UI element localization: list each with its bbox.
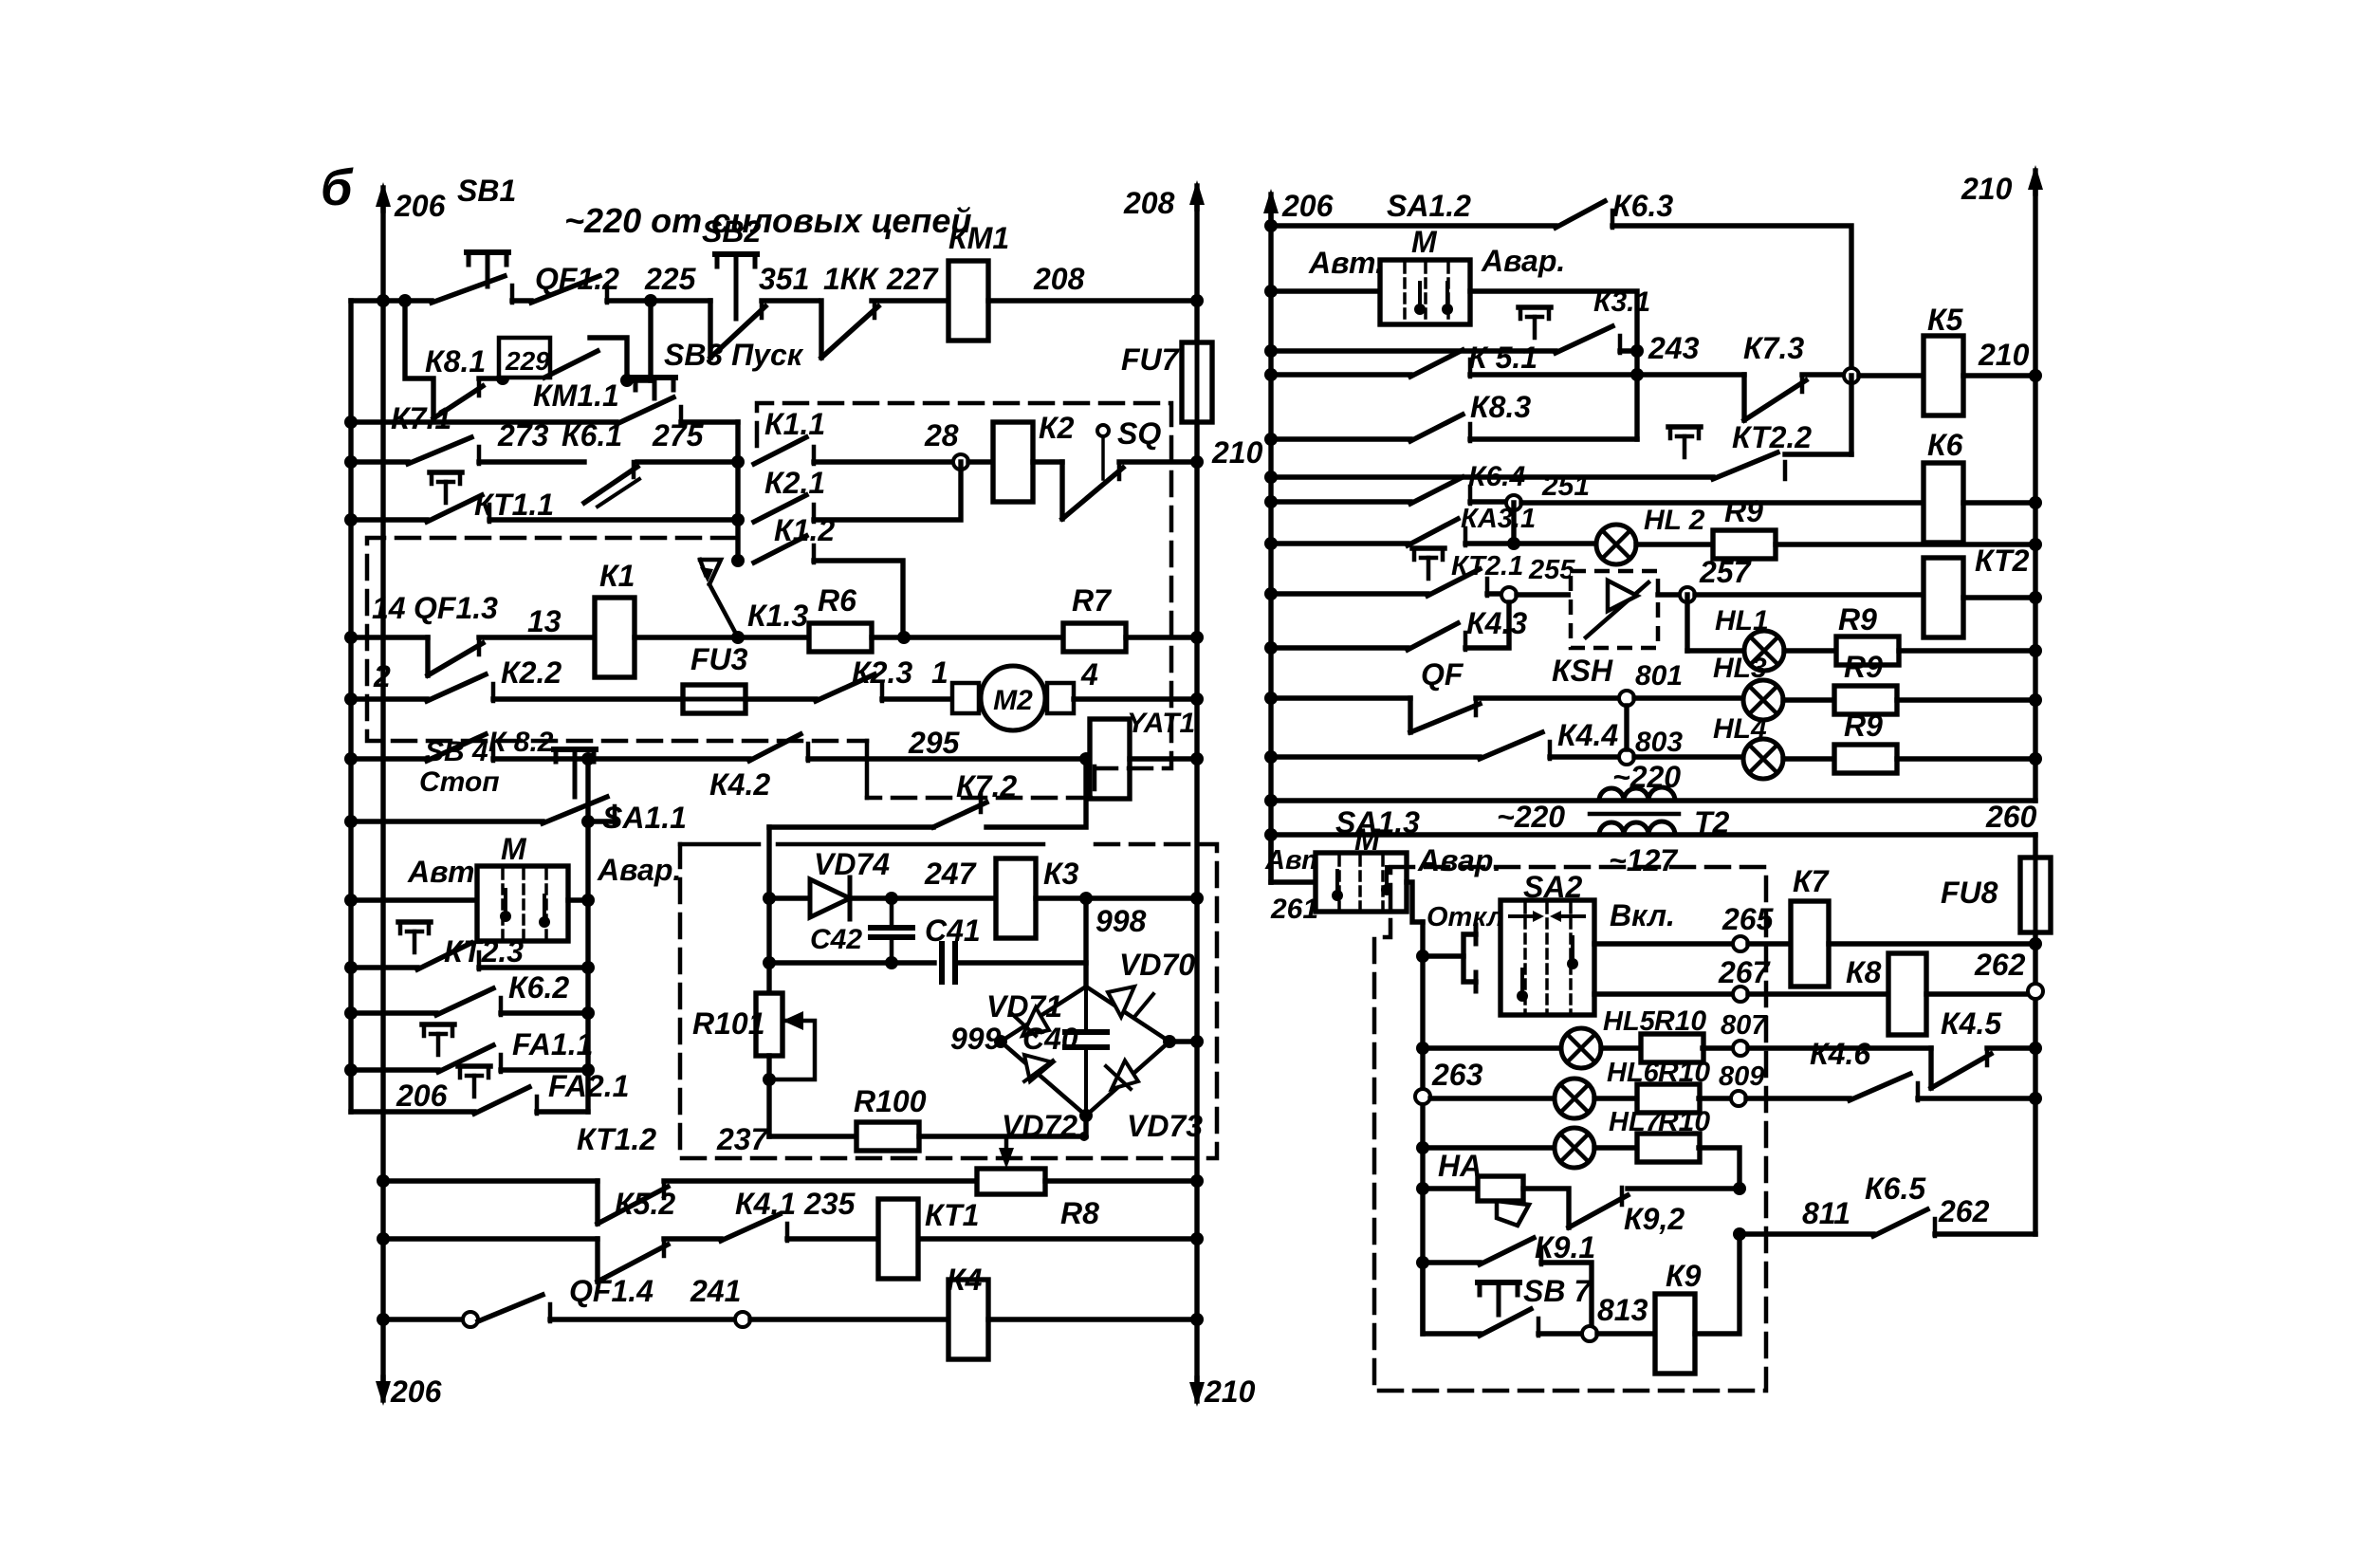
wire rungR9 c [1658, 592, 1680, 597]
svg-text:999: 999 [950, 1022, 1002, 1056]
svg-text:К4.6: К4.6 [1810, 1037, 1870, 1071]
svg-text:К5.2: К5.2 [615, 1187, 675, 1221]
wire rung1245 a [664, 1178, 977, 1183]
svg-text:VD71: VD71 [986, 989, 1062, 1024]
node dot 1500-1008 [1416, 950, 1429, 963]
wire rungR4 left [1271, 372, 1410, 377]
svg-text:С42: С42 [810, 924, 862, 955]
node dot 620-1020 [581, 961, 595, 974]
wire rung 811 b [1935, 1231, 2035, 1236]
coil K5 [1924, 336, 1963, 415]
wire rung1 c [762, 298, 818, 303]
svg-text:КТ2.3: КТ2.3 [444, 934, 524, 968]
svg-text:Авар.: Авар. [1417, 843, 1501, 877]
coil K7 [1791, 901, 1829, 987]
svg-text:К6.4: К6.4 [1468, 461, 1525, 492]
node dot R11 bus [2029, 693, 2042, 707]
contact 1KK [819, 301, 823, 358]
svg-text:811: 811 [1802, 1196, 1850, 1230]
wire rung1015 [769, 960, 934, 965]
wire rung487 a [479, 459, 584, 464]
svg-text:262: 262 [1938, 1194, 1990, 1228]
contact K4.4 [1480, 732, 1542, 759]
svg-text:К3: К3 [1043, 857, 1079, 891]
contact K5.1 [1410, 350, 1463, 377]
node dot 620-949 [581, 894, 595, 907]
wire HL1 rung [1687, 648, 1744, 653]
wire rung672 left [351, 635, 428, 639]
arrow down bus 206 [380, 1377, 385, 1400]
svg-text:227: 227 [886, 262, 940, 296]
node dot R7 bus [2029, 496, 2042, 509]
svg-text:К2.1: К2.1 [764, 466, 825, 500]
svg-text:206: 206 [390, 1374, 442, 1409]
wire HL1 b [1784, 648, 1836, 653]
node 225 [644, 294, 657, 307]
svg-text:1: 1 [931, 655, 948, 690]
svg-text:809: 809 [1719, 1061, 1764, 1092]
motor M2 [952, 683, 979, 713]
svg-text:К1: К1 [599, 559, 635, 593]
svg-text:КТ2.1: КТ2.1 [1451, 551, 1523, 581]
latch contact K1.3 [709, 584, 738, 637]
wire rung1172 right [537, 1109, 588, 1114]
resistor R10 c [1637, 1134, 1700, 1162]
svg-text:М: М [1411, 225, 1438, 259]
node dot 1061-1198 junction [1079, 1132, 1089, 1141]
wire rung HL6 e [1918, 1096, 2035, 1100]
svg-text:255: 255 [1528, 555, 1575, 585]
svg-text:R9: R9 [1844, 650, 1883, 684]
wire rung800 a [493, 756, 749, 761]
node dot 998 [1079, 892, 1093, 905]
node dot R2 [1264, 285, 1278, 298]
svg-text:257: 257 [1699, 555, 1753, 589]
wire 267 to K8 [1748, 991, 1888, 996]
svg-text:К9: К9 [1666, 1259, 1702, 1293]
node dot R4 [1264, 368, 1278, 381]
wire rung K9.1 b [1541, 1263, 1592, 1326]
circle node 807 [1733, 1041, 1748, 1056]
svg-text:КТ2.2: КТ2.2 [1732, 420, 1812, 454]
node dot bus rung1306 [377, 1232, 390, 1245]
contact K6.1 latched [584, 467, 637, 503]
dashed box D3 (rectifier module) [680, 844, 1217, 1158]
coil K4 [948, 1280, 988, 1359]
wire rung487 f [1119, 459, 1197, 464]
travel switch SQ [1059, 462, 1064, 519]
pushbutton SB1 [467, 249, 508, 255]
wire rung1 a [512, 298, 531, 303]
svg-text:801: 801 [1635, 660, 1683, 692]
svg-text:SA1.1: SA1.1 [602, 801, 687, 835]
capacitor C41 [939, 944, 945, 982]
capacitor C40 [1084, 987, 1088, 1030]
coil K8 [1888, 953, 1926, 1035]
contact K1.2 [754, 536, 806, 563]
wire rung672 d [1126, 635, 1197, 639]
svg-text:НА: НА [1438, 1149, 1482, 1183]
node dot R9 bus [2029, 591, 2042, 604]
svg-text:Вкл.: Вкл. [1610, 898, 1675, 932]
svg-text:208: 208 [1123, 186, 1175, 220]
wire vertical 1952 lower [1849, 376, 1853, 454]
wire rungR5 right [1470, 436, 1637, 441]
svg-text:HL3: HL3 [1713, 653, 1767, 684]
wiper arrow to R8 [1004, 1136, 1009, 1159]
svg-text:R101: R101 [692, 1006, 765, 1041]
node dot bus-1098 [1190, 1035, 1204, 1048]
svg-text:R7: R7 [1072, 583, 1113, 618]
node dot bus rung1391 [377, 1313, 390, 1326]
svg-text:КТ1.2: КТ1.2 [577, 1122, 656, 1156]
node dot rung800 right bus [1190, 752, 1204, 766]
resistor R10 a [1641, 1034, 1703, 1062]
lamp HL1 [1744, 631, 1784, 671]
circle node 263 [1415, 1089, 1430, 1104]
circle node 809 [1731, 1091, 1746, 1106]
wire rung737 left [351, 696, 427, 701]
contact K4.3 [1408, 623, 1458, 650]
bus 262 vertical segment [2033, 944, 2037, 1234]
wire rungR5 left [1271, 436, 1410, 441]
contact K8.3 [1410, 415, 1463, 441]
wire rung1068 left [351, 1010, 436, 1015]
svg-text:QF1.2: QF1.2 [535, 262, 619, 296]
svg-text:206: 206 [396, 1079, 448, 1113]
svg-text:К6: К6 [1927, 428, 1963, 462]
wire rungR9 e [1963, 595, 2035, 600]
solenoid YAT1 [1090, 719, 1130, 799]
node dot rung487 right bus [1190, 455, 1204, 469]
wire rungR12 left [1271, 754, 1480, 759]
bracket SA2 left [1423, 953, 1464, 958]
wire rungR3 left [1271, 348, 1556, 353]
node dot R9 [1264, 587, 1278, 600]
wire rungR7 left [1271, 499, 1410, 504]
wire rungR11 c [1783, 697, 1834, 702]
svg-text:243: 243 [1648, 331, 1700, 365]
wire rung SB7 a [1423, 1263, 1480, 1334]
node dot rail rung949 [344, 894, 358, 907]
selector SA2 block [1500, 900, 1594, 1015]
arrow up right-half 210 [2033, 171, 2037, 194]
contact K4.2 [749, 734, 801, 761]
contact QF1.2 [531, 276, 599, 303]
lamp HL4 [1743, 739, 1783, 779]
wire K7.2 rung [769, 824, 933, 829]
wire rung1020 right [479, 965, 588, 969]
svg-text:Авар.: Авар. [1481, 244, 1565, 278]
pushbutton SB3 [634, 375, 675, 380]
wire bus to SA1.3 [1268, 835, 1273, 882]
arrow up bus 208 [1194, 186, 1199, 209]
wire rung HL5 c [1703, 1045, 1733, 1050]
svg-text:М: М [501, 832, 527, 866]
wire rung HA a [1423, 1186, 1478, 1190]
contact K6.5 [1873, 1209, 1927, 1236]
resistor R9 c [1834, 686, 1897, 714]
wire rung SB7 b [1538, 1331, 1582, 1336]
svg-text:К1.3: К1.3 [747, 599, 808, 633]
svg-text:VD73: VD73 [1127, 1109, 1203, 1143]
svg-text:QF: QF [1421, 657, 1464, 692]
wire rungR9 a [1487, 591, 1501, 596]
svg-text:КА3.1: КА3.1 [1461, 504, 1536, 534]
svg-text:Авт.: Авт. [1308, 246, 1384, 280]
svg-text:295: 295 [908, 726, 961, 760]
wire rung1172 left [351, 1109, 474, 1114]
svg-text:К2.3: К2.3 [852, 655, 912, 690]
wire K7 out [1829, 941, 2035, 946]
svg-text:QF1.4: QF1.4 [569, 1274, 654, 1308]
svg-text:998: 998 [1095, 904, 1147, 938]
wire R100 rung [769, 1134, 856, 1138]
time contact KT2.3 [398, 919, 431, 925]
wire rung HL7 out [1699, 1148, 1740, 1189]
contact K6.2 [436, 988, 493, 1015]
bus 206 right-half vertical [1268, 213, 1273, 882]
wire rung1306 left [383, 1236, 598, 1241]
wire rung1 b [607, 298, 710, 303]
node dot rung1245 right bus [1190, 1174, 1204, 1188]
fuse FU7 [1182, 342, 1212, 422]
wire rungR2 left [1271, 288, 1380, 293]
circle node 262 [2028, 984, 2043, 999]
svg-text:237: 237 [716, 1122, 770, 1156]
wire rungR8 left [1271, 541, 1408, 545]
wire rungR9 b [1517, 592, 1582, 597]
wire rung1245 b [1045, 1178, 1197, 1183]
diode VD71 (bridge) [1001, 987, 1086, 1042]
resistor R7 [1063, 623, 1126, 652]
wire rung HL7 a [1423, 1145, 1555, 1150]
wire rung HL5 b [1601, 1045, 1642, 1050]
svg-text:225: 225 [644, 262, 697, 296]
wire K8 out [1926, 991, 2028, 996]
node dot rung1391 right bus [1190, 1313, 1204, 1326]
node dot rail rung1020 [344, 961, 358, 974]
node dot rail rung737 [344, 692, 358, 706]
svg-text:251: 251 [1541, 470, 1590, 502]
node dot 229-branch left [398, 294, 412, 307]
time contact KT1.1 [430, 470, 462, 475]
wire rung800 b [808, 756, 1090, 761]
svg-text:13: 13 [527, 604, 562, 638]
time contact KT1.2 [595, 1181, 599, 1224]
svg-text:М: М [1354, 822, 1381, 857]
node dot R8 bus [2029, 538, 2042, 551]
node dot 1500-1105 [1416, 1042, 1429, 1055]
circle node 801 [1619, 691, 1634, 706]
capacitor C42 [890, 898, 894, 923]
wire rungR12 b [1634, 754, 1743, 759]
svg-text:206: 206 [394, 189, 446, 223]
node dot 1726-395 [1630, 368, 1644, 381]
wire SA2 row A [1594, 941, 1733, 946]
coil K3 [996, 858, 1036, 938]
wire rung949 left [351, 897, 477, 902]
coil K9 [1655, 1294, 1695, 1374]
wire R100 right [919, 1134, 1084, 1138]
wire 265 to K7 [1748, 941, 1792, 946]
node dot 1500-1331 [1416, 1256, 1429, 1269]
bus 210 right-half vertical [2033, 190, 2037, 801]
wire K9.2 out [1628, 1186, 1740, 1190]
time contact K3.1 [1519, 304, 1551, 310]
wire rung800 c [1130, 756, 1197, 761]
node dot 620-1128 [581, 1063, 595, 1077]
node dot R10 [1264, 641, 1278, 655]
svg-text:SQ: SQ [1117, 416, 1161, 451]
wire HL1 c [1899, 648, 2035, 653]
wire C41 right [955, 960, 1086, 965]
wire rail 844 [1271, 798, 2035, 802]
wire rungR8 c [1776, 542, 2035, 546]
wire rungR2 right [1470, 291, 1637, 351]
circle node 251 [1506, 495, 1521, 510]
svg-text:К2: К2 [1039, 411, 1075, 445]
svg-text:SB2: SB2 [702, 214, 761, 249]
svg-text:R9: R9 [1838, 602, 1877, 636]
contact K8.1 [433, 386, 483, 418]
svg-text:К6.3: К6.3 [1612, 189, 1673, 223]
node dot rail rung672 [344, 631, 358, 644]
svg-text:К6.2: К6.2 [508, 970, 569, 1005]
svg-text:КSН: КSН [1552, 654, 1613, 688]
wire rungR1 left [1271, 223, 1556, 228]
bus 208/210 vertical [1194, 204, 1199, 1382]
dashed box D1 (K1/K2 group) top [757, 403, 1171, 768]
contact K2.2 [427, 674, 486, 701]
breaker QF [1408, 698, 1412, 732]
bus 206 left vertical [380, 207, 385, 1380]
mode switch SA1.1 block [477, 866, 568, 941]
svg-text:К8.3: К8.3 [1470, 390, 1531, 424]
svg-text:HL4: HL4 [1713, 713, 1767, 745]
wire rungR11 d [1897, 697, 2035, 702]
wire rung487 d [968, 459, 995, 464]
node dot rail rung1128 [344, 1063, 358, 1077]
node dot rail rung445 [344, 415, 358, 429]
wire SA1.3 out [1407, 882, 1423, 922]
wire 229-loop mid [479, 376, 501, 380]
node dot 811-947 [763, 892, 776, 905]
wire rung HL6 b [1594, 1096, 1638, 1100]
svg-text:2: 2 [373, 659, 391, 693]
svg-text:275: 275 [652, 418, 705, 452]
wire vertical 620 [585, 759, 590, 1112]
wire 257 drop [1685, 595, 1689, 651]
node dot rail rung487 [344, 455, 358, 469]
svg-text:К4.5: К4.5 [1941, 1006, 2002, 1041]
svg-text:351: 351 [759, 262, 809, 296]
node dot R6 right [897, 631, 911, 644]
release module KSH [1571, 571, 1658, 648]
contact K2.1 [754, 495, 806, 522]
svg-text:КТ1: КТ1 [925, 1198, 979, 1232]
node dot R8 [1264, 537, 1278, 550]
svg-text:Авар.: Авар. [597, 853, 681, 887]
wire K1.2 out [814, 561, 903, 637]
svg-text:261: 261 [1270, 894, 1318, 925]
wire rung HL5 a [1423, 1045, 1561, 1050]
svg-text:К9.1: К9.1 [1535, 1230, 1595, 1264]
wire rung1068 right [501, 1010, 588, 1015]
svg-text:К8: К8 [1846, 955, 1882, 989]
svg-text:210: 210 [1211, 435, 1263, 470]
svg-text:С40: С40 [1022, 1022, 1078, 1056]
wire inner-left vertical [766, 898, 771, 993]
svg-text:FU3: FU3 [690, 642, 748, 676]
node dot R12 bus [2029, 752, 2042, 766]
coil K6 [1924, 463, 1963, 543]
svg-text:К4.2: К4.2 [709, 767, 770, 802]
svg-text:КМ1.1: КМ1.1 [533, 378, 619, 413]
svg-text:К1.1: К1.1 [764, 407, 825, 441]
node dot rail rung548 [344, 513, 358, 526]
box 229 [499, 338, 550, 378]
wire 229-loop left drop [405, 301, 433, 418]
svg-text:HL1: HL1 [1715, 605, 1769, 636]
wire rungR7 c [1963, 500, 2035, 505]
node dot 1596-573 [1507, 537, 1520, 550]
svg-text:14: 14 [372, 591, 406, 625]
transformer T2 secondary [1599, 821, 1675, 835]
wire rungR12 a [1550, 754, 1619, 759]
node dot R1 [1264, 219, 1278, 232]
wire vertical 1726 [1634, 351, 1639, 439]
svg-text:1КК: 1КК [823, 262, 879, 296]
wire vertical 778 [735, 422, 740, 561]
wire rung HL5 e [1987, 1045, 2035, 1050]
wire 260 corner down [2033, 835, 2037, 858]
svg-text:813: 813 [1597, 1293, 1648, 1327]
svg-text:С41: С41 [925, 913, 981, 948]
wire rung SB3 right [681, 419, 738, 424]
circle node K7.3 out [1844, 368, 1859, 383]
wire bridge right out [1169, 1039, 1197, 1043]
arrow down bus 210 [1194, 1378, 1199, 1401]
svg-text:К3.1: К3.1 [1593, 286, 1650, 318]
node dot rung1 right bus [1190, 294, 1204, 307]
svg-text:К6.5: К6.5 [1865, 1171, 1926, 1206]
node dot rail rung800 [344, 752, 358, 766]
contact K6.3 [1556, 201, 1605, 228]
wire rung1306 a [664, 1236, 721, 1241]
wire 229-loop right bracket [590, 338, 627, 380]
dashed box D3 top left [680, 842, 759, 847]
wire rung949 right [568, 897, 588, 902]
svg-text:FU7: FU7 [1121, 342, 1181, 377]
contact K9.2 [1569, 1195, 1628, 1227]
svg-text:К7.3: К7.3 [1743, 331, 1804, 365]
circle node 255 [1501, 587, 1517, 602]
time contact KT2.2 [1668, 424, 1701, 430]
wire rungR3 right [1620, 348, 1637, 353]
svg-text:Стоп: Стоп [419, 766, 500, 798]
resistor R9 d [1834, 745, 1897, 773]
svg-text:R10: R10 [1654, 1005, 1706, 1037]
wire R101 bottom [766, 1056, 771, 1136]
svg-text:803: 803 [1635, 727, 1683, 758]
svg-text:R100: R100 [854, 1084, 927, 1118]
release contact FA1.1 [422, 1022, 454, 1027]
svg-text:К 5.1: К 5.1 [1468, 341, 1537, 375]
svg-text:К4.1: К4.1 [735, 1187, 796, 1221]
diode VD73 (bridge) [1086, 1042, 1169, 1116]
wire rung487 b [637, 459, 738, 464]
